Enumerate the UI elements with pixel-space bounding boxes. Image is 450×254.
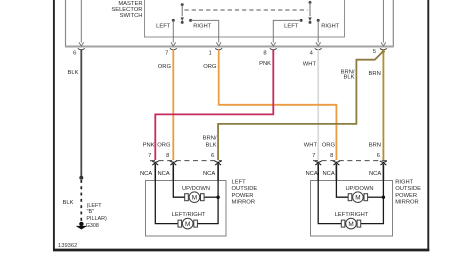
wire feed to pin 6 <box>80 0 82 43</box>
wire feed to pin 5 <box>382 0 384 43</box>
right mirror wiring NCA pin8 <box>336 164 348 197</box>
svg-text:POWER: POWER <box>232 193 254 199</box>
svg-text:ORG: ORG <box>322 143 336 149</box>
svg-text:UP/DOWN: UP/DOWN <box>345 186 373 192</box>
splice in right mirror <box>382 196 385 199</box>
svg-text:M: M <box>348 221 353 228</box>
svg-text:6: 6 <box>211 153 214 159</box>
wire S2 LEFT to pin 8 <box>273 20 301 42</box>
svg-text:8: 8 <box>330 153 333 159</box>
wire BRN/BLK pin5 branch to left mirror pin6 <box>218 51 383 160</box>
inner switch box <box>145 0 345 37</box>
svg-text:RIGHT: RIGHT <box>395 180 413 186</box>
ground G308 <box>79 222 83 226</box>
wire S1 RIGHT to pin 1 <box>191 20 219 42</box>
switch S2 pole <box>308 1 311 24</box>
page border right <box>427 0 429 251</box>
left mirror box <box>146 181 227 237</box>
svg-text:MASTER: MASTER <box>118 1 142 7</box>
svg-text:NCA: NCA <box>203 171 215 177</box>
svg-text:139362: 139362 <box>58 243 77 249</box>
wire BRN pin5 to right mirror pin6 <box>382 50 384 161</box>
svg-text:6: 6 <box>377 153 380 159</box>
svg-text:BRN: BRN <box>369 71 381 77</box>
svg-text:ORG: ORG <box>158 64 172 70</box>
svg-text:6: 6 <box>73 50 76 56</box>
svg-text:NCA: NCA <box>158 171 170 177</box>
svg-text:PNK: PNK <box>143 143 155 149</box>
svg-text:5: 5 <box>373 49 376 55</box>
svg-text:LEFT/RIGHT: LEFT/RIGHT <box>335 212 369 218</box>
svg-text:WHT: WHT <box>303 62 317 68</box>
svg-text:"B": "B" <box>87 209 95 215</box>
wire S1 LEFT to pin 7 <box>172 20 174 42</box>
wire BLK pin6 down <box>80 50 82 179</box>
svg-text:1: 1 <box>209 50 212 56</box>
svg-text:LEFT: LEFT <box>232 180 247 186</box>
svg-text:OUTSIDE: OUTSIDE <box>395 186 421 192</box>
splice in left mirror <box>216 196 219 199</box>
svg-text:8: 8 <box>263 50 266 56</box>
svg-text:7: 7 <box>148 153 151 159</box>
linkage dashed line <box>185 9 308 11</box>
switch S1 pole <box>181 3 184 24</box>
svg-text:MIRROR: MIRROR <box>232 199 256 205</box>
svg-text:POWER: POWER <box>395 193 417 199</box>
wire WHT pin4 to right mirror pin7 <box>317 50 319 161</box>
right mirror wiring NCA pin7 <box>318 164 341 224</box>
right mirror wiring NCA pin6 <box>361 164 384 224</box>
svg-text:RIGHT: RIGHT <box>193 23 211 29</box>
svg-text:LEFT: LEFT <box>284 23 299 29</box>
right mirror box <box>311 181 393 237</box>
svg-text:M: M <box>192 195 197 202</box>
svg-text:OUTSIDE: OUTSIDE <box>232 186 258 192</box>
svg-text:LEFT: LEFT <box>156 23 171 29</box>
svg-text:BLK: BLK <box>63 200 74 206</box>
svg-text:7: 7 <box>312 153 315 159</box>
svg-text:LEFT/RIGHT: LEFT/RIGHT <box>172 212 206 218</box>
svg-text:M: M <box>185 221 190 228</box>
svg-text:SELECTOR: SELECTOR <box>111 7 142 13</box>
svg-text:M: M <box>355 195 360 202</box>
svg-text:UP/DOWN: UP/DOWN <box>182 186 210 192</box>
svg-text:ORG: ORG <box>203 64 217 70</box>
left mirror connector dashed line <box>150 160 222 162</box>
left mirror wiring NCA pin6 <box>197 164 218 224</box>
svg-text:WHT: WHT <box>304 143 318 149</box>
svg-text:BRN/: BRN/ <box>203 136 217 142</box>
wire S2 RIGHT to pin 4 <box>317 20 319 42</box>
outer switch box left edge <box>65 0 67 47</box>
right mirror connector dashed line <box>313 160 388 162</box>
wire ORG pin7 to left mirror pin8 <box>172 50 174 161</box>
page border left <box>53 0 55 251</box>
left mirror wiring NCA pin8 <box>173 164 184 197</box>
svg-text:PNK: PNK <box>259 61 271 67</box>
svg-text:NCA: NCA <box>369 171 381 177</box>
svg-text:PILLAR): PILLAR) <box>86 216 107 222</box>
svg-text:G308: G308 <box>86 223 99 229</box>
svg-text:NCA: NCA <box>140 171 152 177</box>
svg-text:BLK: BLK <box>344 75 355 81</box>
svg-text:NCA: NCA <box>306 171 318 177</box>
left mirror wiring NCA pin7 <box>155 164 178 224</box>
svg-text:ORG: ORG <box>157 143 171 149</box>
S2 LEFT contact <box>300 19 303 22</box>
splice at pin5 <box>382 50 385 53</box>
S2 RIGHT contact <box>317 19 320 22</box>
svg-text:RIGHT: RIGHT <box>321 23 339 29</box>
outer switch box right edge <box>392 0 394 47</box>
main connector line C <box>65 46 394 48</box>
svg-text:7: 7 <box>165 50 168 56</box>
svg-text:NCA: NCA <box>323 171 335 177</box>
page border bottom <box>53 249 429 252</box>
svg-text:8: 8 <box>166 153 169 159</box>
svg-text:BLK: BLK <box>206 143 217 149</box>
connector stems into mirror boxes <box>154 164 156 181</box>
wire PNK pin8 to left mirror pin7 <box>155 50 273 161</box>
S1 RIGHT contact <box>189 19 192 22</box>
wire ORG pin1 to right mirror pin8 <box>219 50 337 161</box>
splice on BLK <box>79 176 83 180</box>
svg-text:MIRROR: MIRROR <box>395 199 419 205</box>
svg-text:BLK: BLK <box>68 70 79 76</box>
svg-text:SWITCH: SWITCH <box>120 13 143 19</box>
BLK dashed to ground <box>80 180 82 222</box>
svg-text:BRN: BRN <box>369 143 381 149</box>
S1 LEFT contact <box>172 19 175 22</box>
